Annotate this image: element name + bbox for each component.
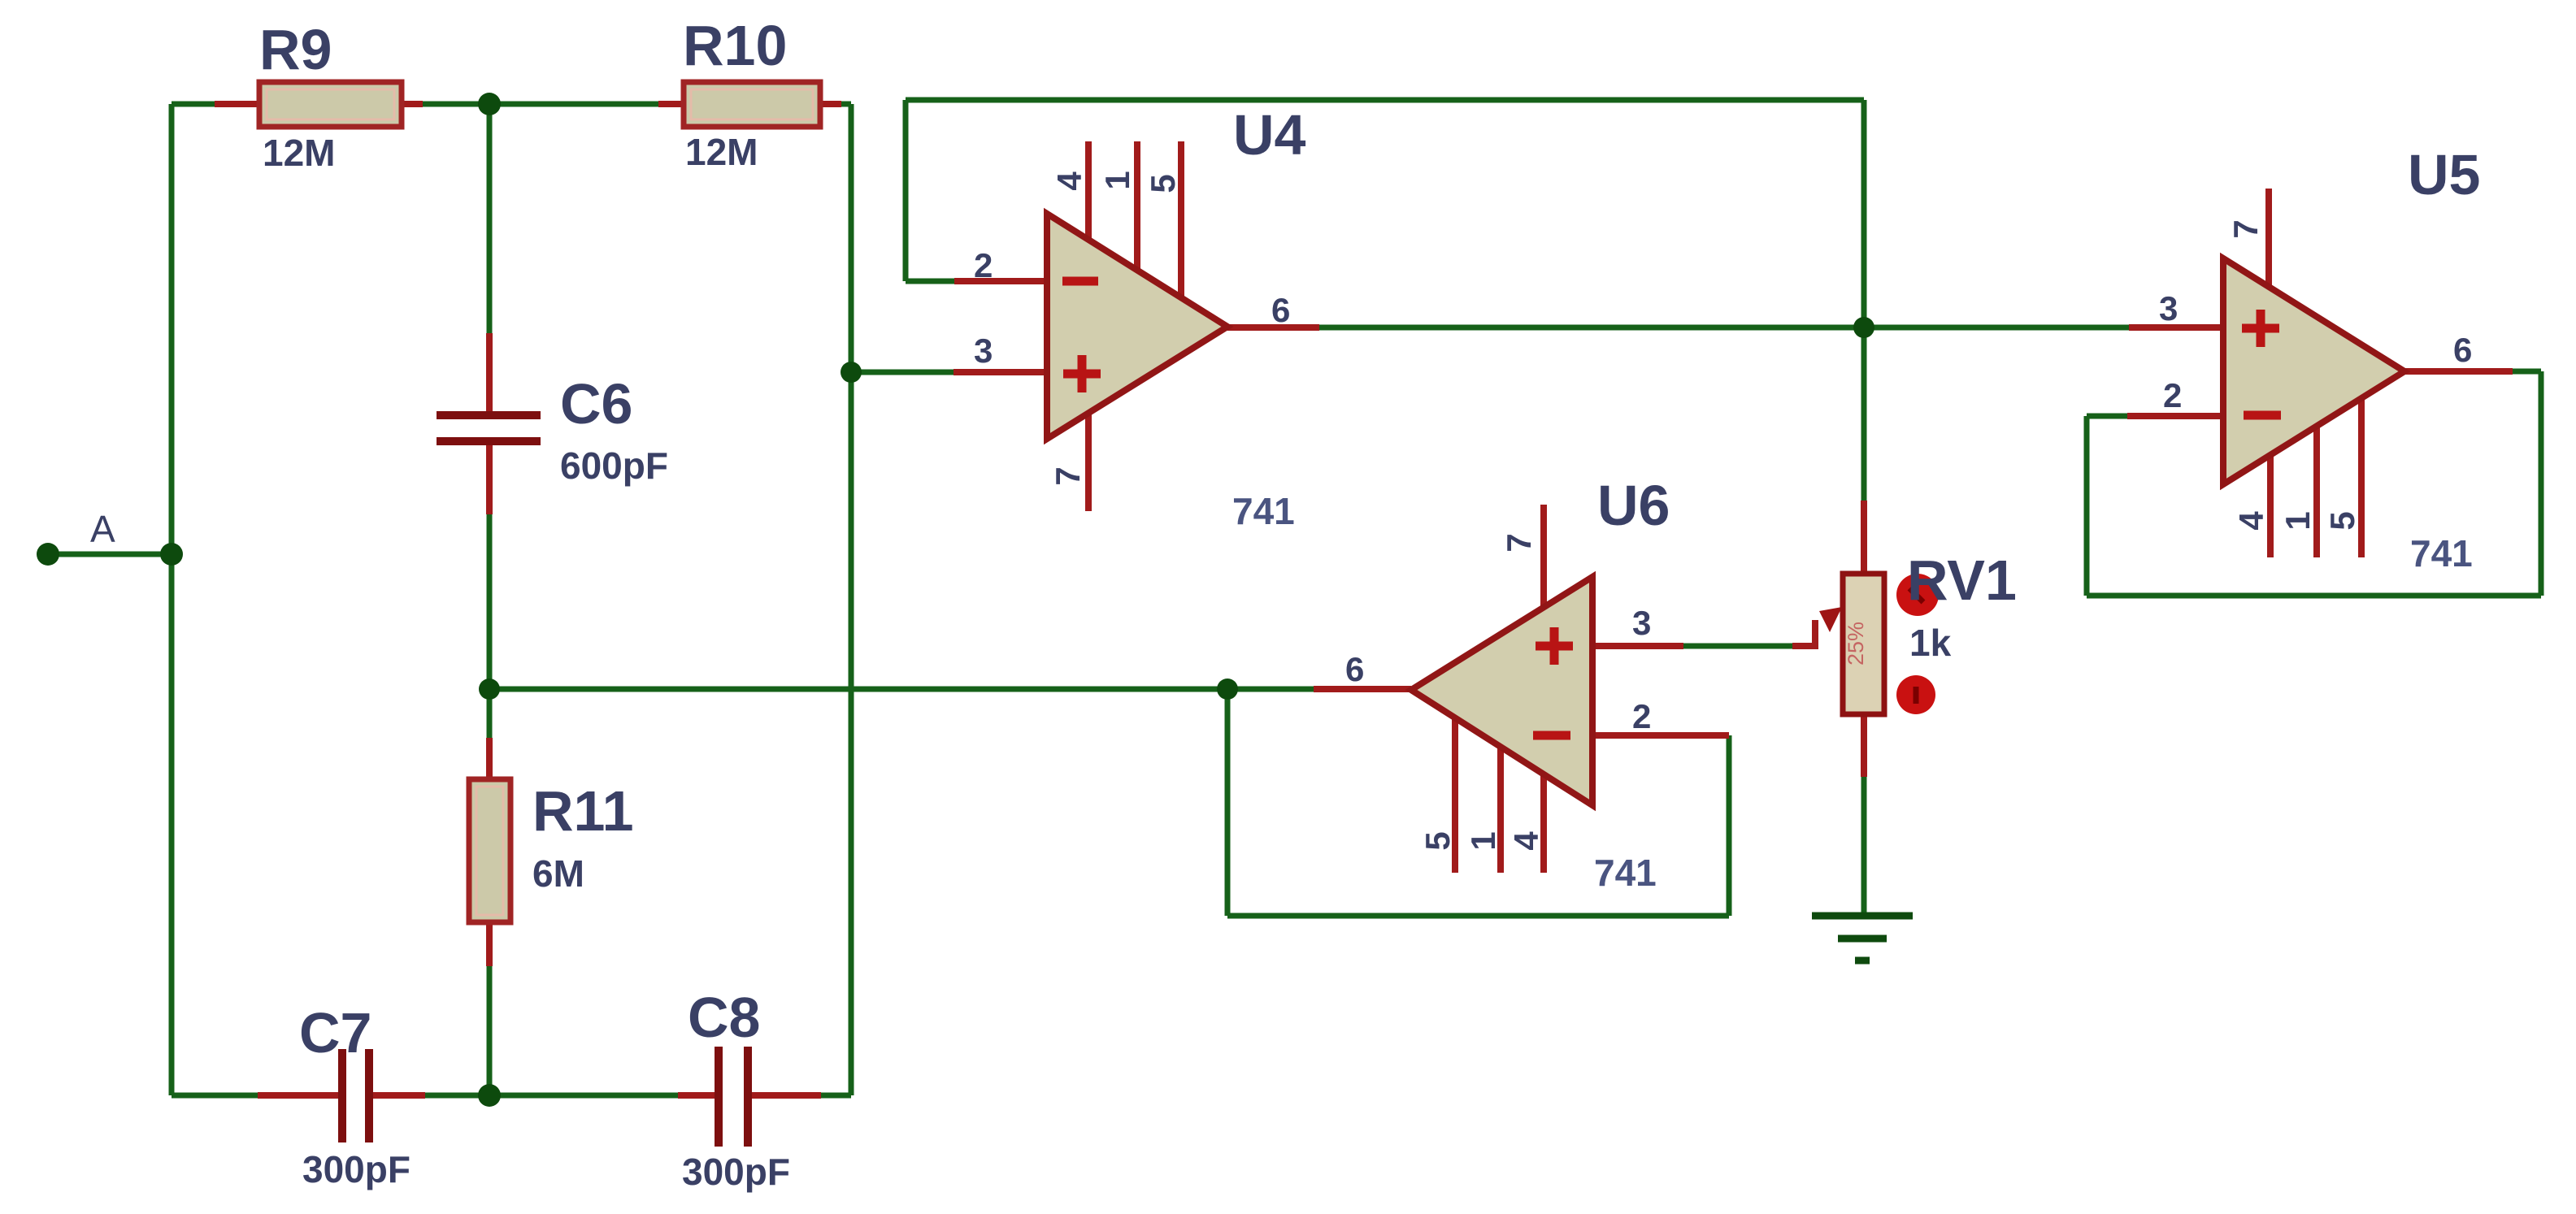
svg-text:300pF: 300pF xyxy=(302,1148,411,1190)
svg-text:3: 3 xyxy=(974,332,993,370)
svg-text:1: 1 xyxy=(2278,511,2317,530)
svg-text:6: 6 xyxy=(2453,331,2472,369)
svg-text:3: 3 xyxy=(2159,289,2178,327)
svg-text:1k: 1k xyxy=(1909,622,1952,664)
svg-text:4: 4 xyxy=(1050,171,1088,191)
svg-text:7: 7 xyxy=(2226,219,2265,238)
svg-text:4: 4 xyxy=(1507,831,1545,851)
svg-text:4: 4 xyxy=(2232,511,2270,531)
svg-text:300pF: 300pF xyxy=(682,1151,790,1193)
svg-text:U5: U5 xyxy=(2408,143,2480,206)
svg-text:U4: U4 xyxy=(1233,103,1306,167)
svg-text:25%: 25% xyxy=(1844,622,1868,666)
svg-text:7: 7 xyxy=(1049,466,1087,485)
svg-text:6M: 6M xyxy=(532,852,584,895)
svg-text:12M: 12M xyxy=(685,131,758,173)
svg-text:2: 2 xyxy=(974,246,993,284)
svg-text:6: 6 xyxy=(1271,291,1290,329)
svg-text:6: 6 xyxy=(1345,650,1364,688)
svg-text:R9: R9 xyxy=(259,18,332,81)
svg-text:U6: U6 xyxy=(1597,474,1670,537)
svg-text:C8: C8 xyxy=(688,986,760,1049)
svg-text:2: 2 xyxy=(1632,697,1651,735)
svg-text:5: 5 xyxy=(2323,511,2361,530)
svg-text:2: 2 xyxy=(2163,376,2182,414)
svg-text:RV1: RV1 xyxy=(1907,548,2017,612)
svg-text:741: 741 xyxy=(1232,490,1295,532)
svg-text:741: 741 xyxy=(2410,532,2473,574)
svg-text:12M: 12M xyxy=(263,132,335,174)
svg-text:C6: C6 xyxy=(560,372,632,436)
svg-text:C7: C7 xyxy=(299,1001,371,1064)
svg-text:1: 1 xyxy=(1098,171,1136,189)
svg-text:5: 5 xyxy=(1418,831,1457,850)
svg-text:R10: R10 xyxy=(683,14,787,77)
svg-text:1: 1 xyxy=(1464,831,1502,850)
svg-text:600pF: 600pF xyxy=(560,444,668,487)
svg-text:A: A xyxy=(90,508,115,550)
svg-text:7: 7 xyxy=(1500,533,1538,552)
svg-text:R11: R11 xyxy=(532,779,634,843)
svg-text:741: 741 xyxy=(1594,852,1657,894)
svg-text:3: 3 xyxy=(1632,604,1651,642)
svg-text:5: 5 xyxy=(1144,174,1182,193)
